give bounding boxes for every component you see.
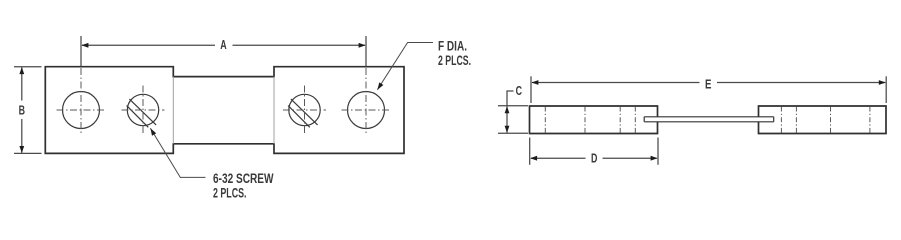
svg-text:2 PLCS.: 2 PLCS. — [213, 186, 247, 201]
svg-text:A: A — [220, 37, 227, 52]
svg-text:6-32 SCREW: 6-32 SCREW — [213, 171, 274, 186]
svg-text:C: C — [516, 83, 523, 98]
svg-text:F DIA.: F DIA. — [438, 39, 467, 54]
svg-text:B: B — [19, 103, 25, 118]
svg-text:D: D — [591, 151, 597, 166]
svg-text:E: E — [705, 77, 712, 92]
svg-text:2 PLCS.: 2 PLCS. — [438, 53, 471, 68]
